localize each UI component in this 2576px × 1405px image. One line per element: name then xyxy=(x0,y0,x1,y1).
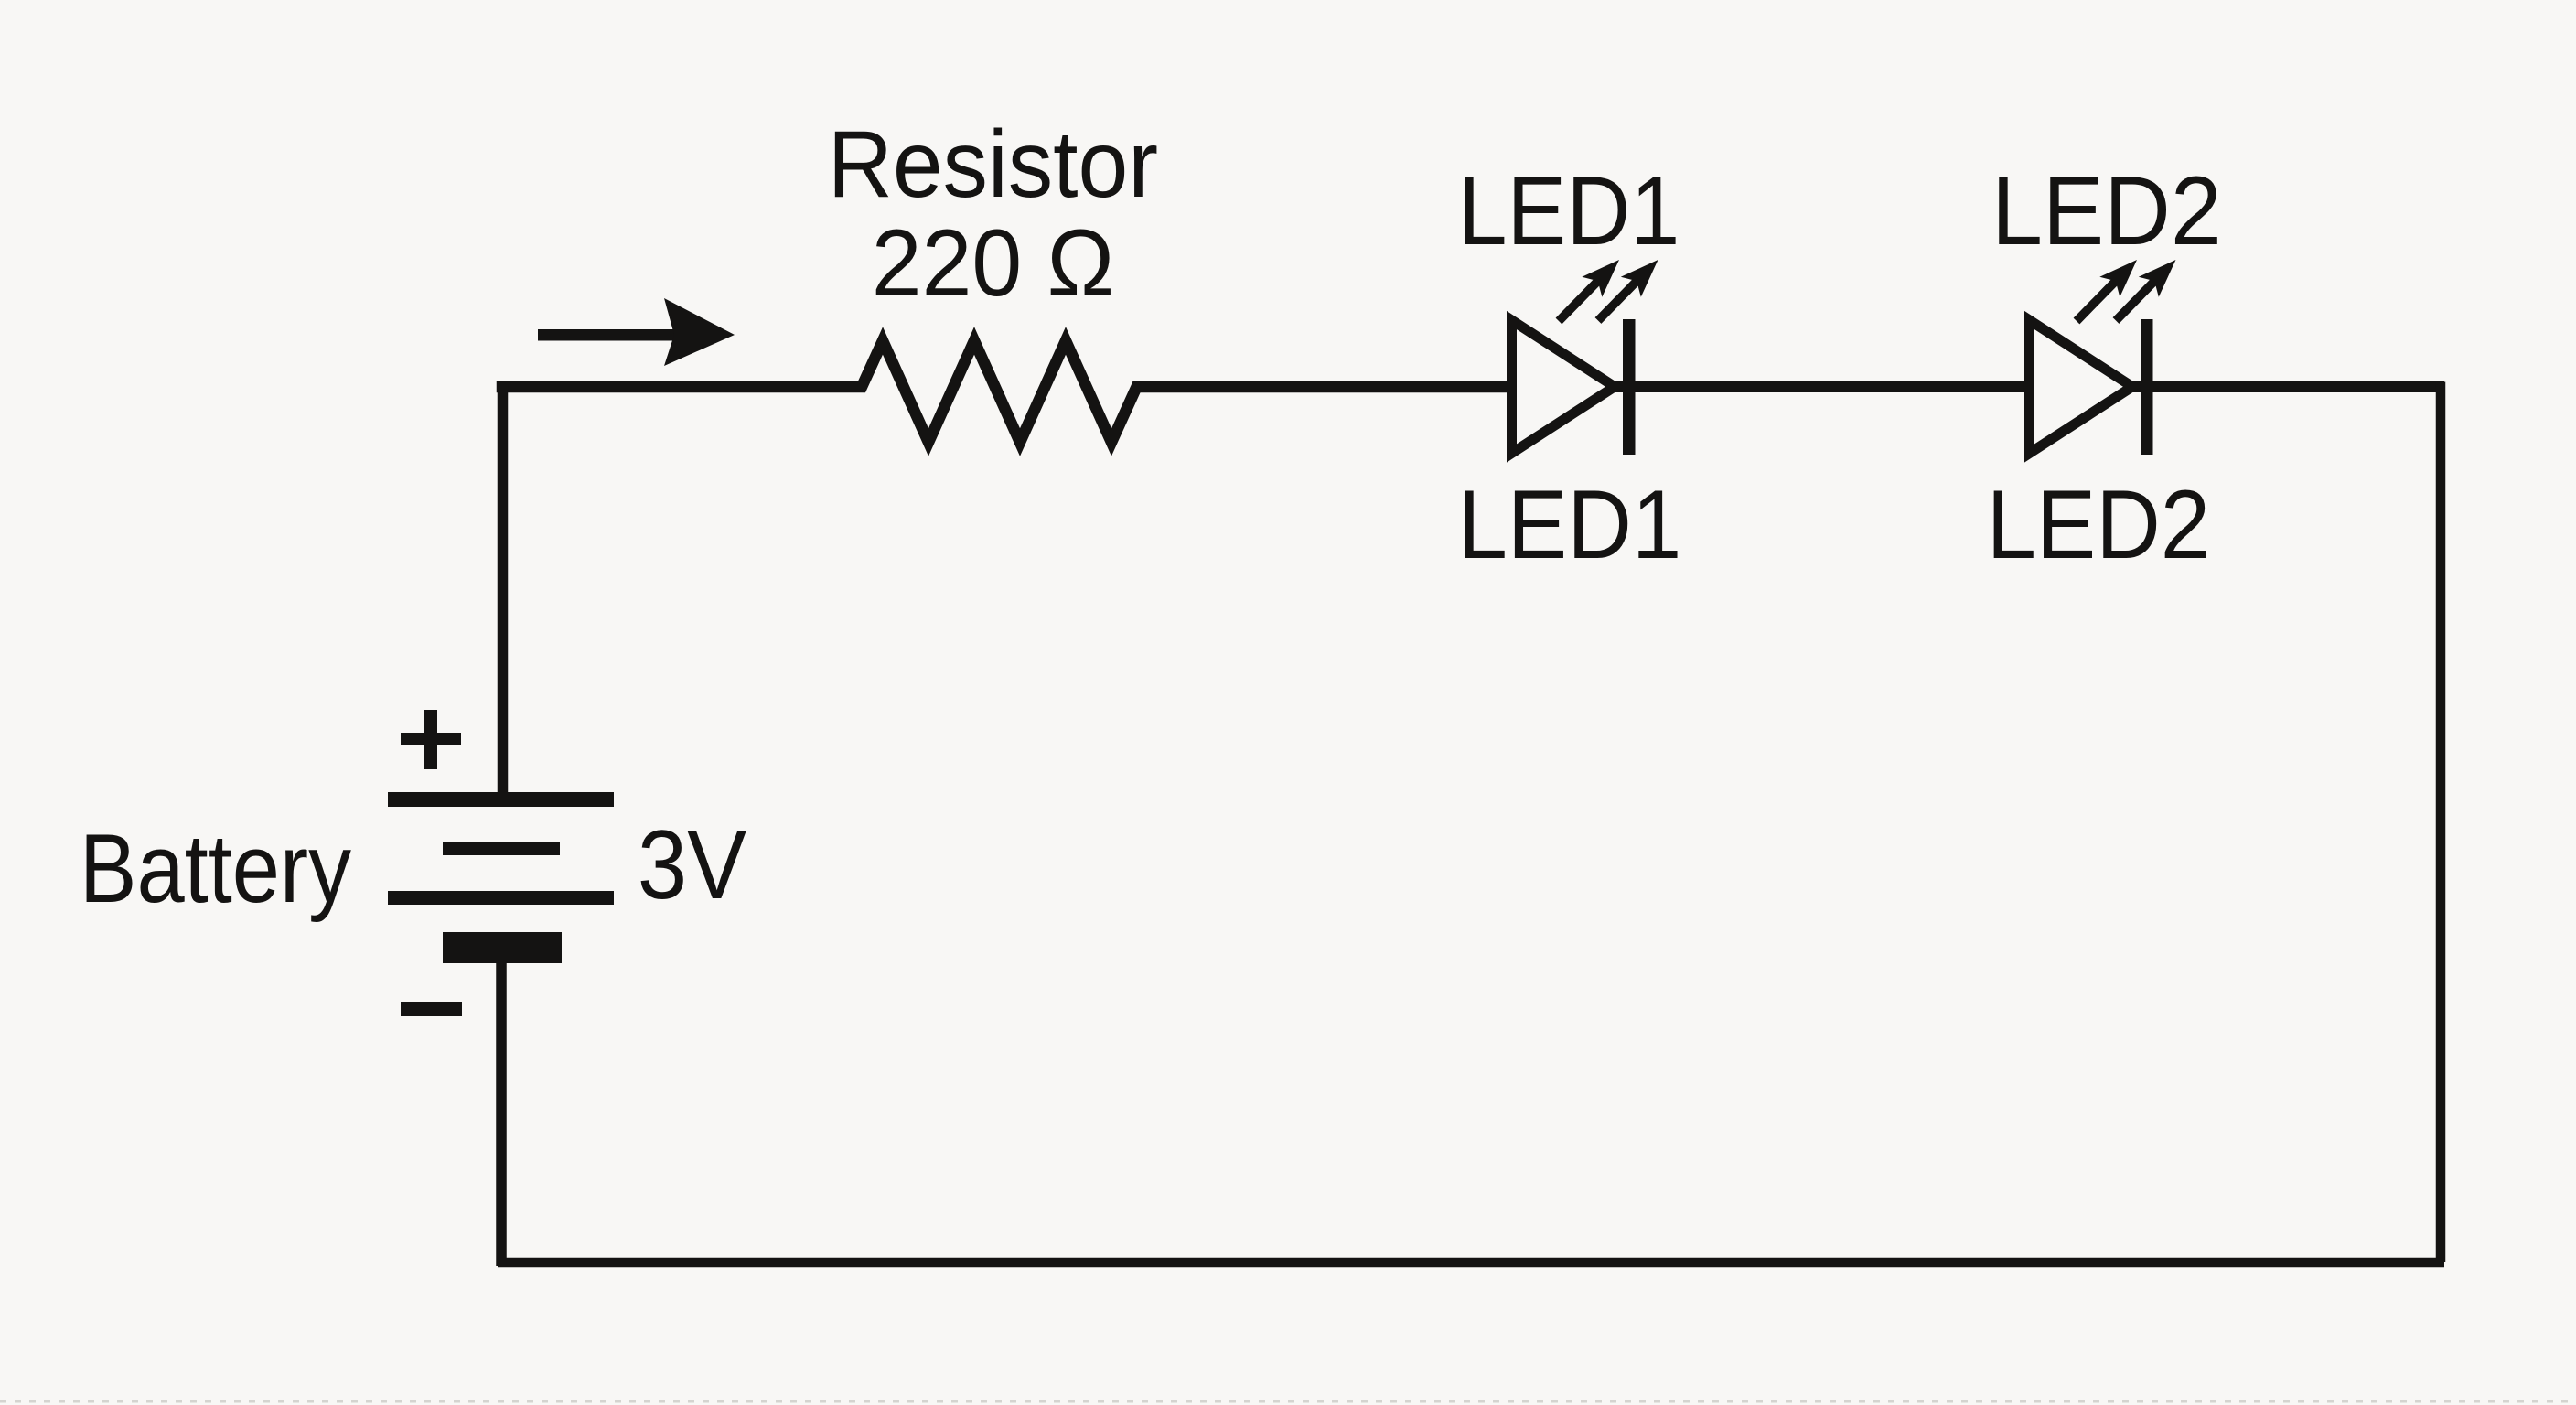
svg-text:LED1: LED1 xyxy=(1458,156,1680,265)
svg-text:LED2: LED2 xyxy=(1987,469,2211,579)
svg-text:LED1: LED1 xyxy=(1458,469,1682,579)
svg-text:3V: 3V xyxy=(638,810,746,919)
svg-text:Resistor: Resistor xyxy=(828,112,1158,218)
svg-text:220 Ω: 220 Ω xyxy=(872,210,1114,316)
svg-text:Battery: Battery xyxy=(80,813,352,923)
svg-text:LED2: LED2 xyxy=(1991,156,2222,265)
